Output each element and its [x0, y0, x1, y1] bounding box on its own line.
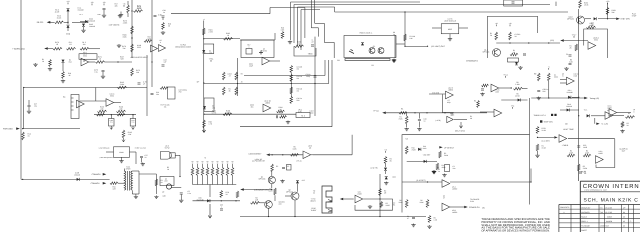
ground y121 x288 [286, 121, 290, 124]
limit module U17 box [441, 24, 459, 34]
junction y114 xb [132, 114, 133, 115]
wire U10C in [80, 100, 106, 102]
resistor R146 [477, 101, 480, 108]
svg-text:LOW ENERGY: LOW ENERGY [249, 153, 263, 156]
op-amp U9E [596, 156, 604, 164]
wire U8 right pin [130, 151, 137, 153]
resistor R190 [22, 132, 25, 140]
svg-text:03-02-95: 03-02-95 [605, 206, 612, 209]
supply +Frq left [503, 74, 508, 78]
capacitor C230 [220, 209, 223, 210]
svg-text:R2100.77K: R2100.77K [212, 110, 217, 115]
svg-text:R1821K: R1821K [226, 32, 230, 37]
resistor ladder R236 [221, 168, 224, 176]
wire x405 drop [404, 12, 406, 47]
wire x380 drop [379, 174, 381, 217]
wire xfmr sec top [132, 170, 139, 172]
junction y114 xa [111, 114, 112, 115]
resistor R122 [495, 32, 498, 40]
wire R171b to x132 [105, 61, 133, 63]
supply +Freq [572, 34, 577, 38]
svg-text:C101u: C101u [424, 118, 427, 123]
diode D130 [207, 199, 210, 202]
svg-text:R2: R2 [628, 112, 630, 115]
diode D90 [518, 98, 521, 101]
resistor R173b [67, 47, 76, 50]
diode D105 [82, 24, 85, 27]
svg-text:+D2: +D2 [302, 179, 305, 182]
resistor R164 [97, 113, 105, 116]
junction x22 y179 [22, 179, 23, 180]
svg-text:R14K: R14K [228, 88, 231, 93]
ground x163 [161, 31, 165, 34]
resistor R280 [626, 116, 635, 119]
svg-text:A1: A1 [63, 96, 66, 99]
wire U17 left pin [432, 27, 441, 29]
svg-text:MOD: MOD [448, 28, 453, 31]
wire vertical bus x152 [151, 0, 153, 87]
resistor R177 [131, 68, 134, 76]
arrow PWR GND [16, 127, 20, 130]
wire ladder bottom rail [193, 184, 237, 186]
wire x531 up [530, 169, 532, 183]
svg-text:TRIM: TRIM [308, 53, 313, 56]
svg-text:PROJ. #: PROJ. # [581, 220, 587, 223]
svg-text:R1740K: R1740K [114, 3, 118, 8]
svg-text:D1051N4448: D1051N4448 [89, 23, 95, 28]
resistor R284 [577, 164, 580, 171]
svg-text:U10 BLM833: U10 BLM833 [448, 87, 454, 92]
ground under U8 [119, 160, 123, 163]
svg-text:R12K: R12K [569, 45, 572, 50]
arrow STBY DRV [616, 17, 620, 20]
ground under C92 [537, 97, 541, 100]
svg-text:C2S100R: C2S100R [583, 144, 588, 149]
wire bus y13.7 [171, 13, 270, 15]
svg-text:R182K: R182K [168, 23, 171, 28]
svg-text:R2200K: R2200K [444, 152, 449, 157]
title table column line 4 [603, 205, 605, 233]
resistor R192 [155, 179, 158, 186]
diode D121 [385, 177, 388, 180]
svg-text:COMMON: COMMON [91, 182, 100, 185]
wire ladder drop R232 [202, 176, 204, 185]
wire vas loop [488, 16, 538, 58]
junction y43 b [528, 42, 529, 43]
svg-text:C9B: C9B [562, 73, 565, 78]
arrow THE GA [382, 112, 386, 115]
arrow -V zener [208, 204, 212, 218]
ground shield [392, 59, 396, 62]
svg-text:(-15 VOLTS): (-15 VOLTS) [109, 24, 120, 27]
svg-text:R11K: R11K [161, 179, 164, 184]
wire psu inputs [402, 181, 442, 183]
supply +50 A [91, 1, 94, 5]
wire U9C out [617, 112, 631, 114]
wire y100 link [501, 99, 527, 101]
resistor R188 [295, 45, 304, 48]
svg-text:SCALE: SCALE [581, 215, 587, 218]
resistor ladder R238 [231, 168, 234, 176]
resistor R176b [134, 10, 143, 13]
capacitor C154 [154, 15, 157, 16]
diode D95 [567, 108, 570, 111]
svg-text:03: 03 [623, 220, 625, 223]
ground protect [392, 59, 396, 62]
junction le b [282, 154, 283, 155]
resistor R130 [160, 87, 168, 90]
wire xfmr sec bottom [131, 191, 133, 195]
timing list squares [551, 114, 553, 116]
resistor R181 [49, 60, 52, 67]
temp sen square [540, 120, 542, 122]
resistor R183 [162, 23, 165, 30]
wire y40 relay top [240, 39, 275, 41]
resistor R224 [220, 191, 223, 198]
svg-text:U100 1BLM833: U100 1BLM833 [264, 100, 271, 105]
supply +15 c [548, 66, 550, 70]
wire Q120 emitter down [271, 184, 273, 188]
capacitor C176 [102, 70, 105, 71]
wire bus F drop2 [317, 28, 319, 37]
svg-text:C2R4: C2R4 [393, 202, 395, 207]
transistor Q111 [378, 48, 384, 54]
ground row b [48, 68, 52, 71]
wire x136 drop [135, 152, 137, 164]
wire C17 down [141, 158, 143, 163]
svg-text:R6100K: R6100K [420, 199, 425, 204]
capacitor C173 [28, 105, 31, 106]
ground under U22 [368, 205, 372, 208]
resistor ladder R235 [216, 168, 219, 176]
junction pwr gnd [22, 128, 23, 129]
svg-text:U1 BTLP12: U1 BTLP12 [165, 145, 170, 150]
wire drop to arrow [594, 118, 596, 124]
opto gate U12 body [161, 152, 172, 160]
svg-text:R11K: R11K [513, 49, 516, 54]
svg-text:C20.1u: C20.1u [188, 190, 191, 195]
svg-text:139K2.SCH: 139K2.SCH [600, 225, 610, 228]
supply +10 a [495, 22, 498, 26]
wire limit out [405, 45, 428, 47]
supply chain +V [384, 149, 387, 153]
arrow left off-page [560, 39, 564, 42]
wire gnd stub [120, 12, 122, 14]
wire u30a out long [450, 181, 531, 183]
wire vert from y88 [23, 88, 25, 129]
svg-text:R180150K: R180150K [122, 34, 127, 39]
svg-text:TP GA: TP GA [373, 110, 379, 113]
svg-text:U3.BLM339: U3.BLM339 [452, 209, 457, 214]
svg-text:+C 1.2M: +C 1.2M [601, 123, 608, 126]
svg-text:C81u: C81u [393, 31, 395, 36]
junction x132 y38b [131, 37, 132, 38]
svg-text:R1700K: R1700K [399, 116, 404, 121]
ground right of Q120 [280, 180, 284, 183]
wire bal corner a [324, 60, 326, 76]
junction x210 zener [209, 200, 210, 201]
svg-text:R14 1K1%: R14 1K1% [297, 75, 304, 80]
ground top psu a [432, 170, 436, 173]
resistor R91 [514, 87, 523, 90]
wire U8 left pin [106, 151, 114, 153]
svg-text:T100XFMR: T100XFMR [126, 166, 132, 171]
junction y98 [548, 97, 549, 98]
svg-text:R61.2K: R61.2K [434, 217, 438, 222]
svg-text:03-17-95: 03-17-95 [605, 211, 612, 214]
svg-text:U17 BLIMIT MODULE: U17 BLIMIT MODULE [444, 18, 457, 23]
svg-text:C10 1u50V: C10 1u50V [297, 97, 303, 102]
op-amp U10B-A feedback loop [584, 29, 608, 50]
svg-text:+REG: +REG [209, 58, 214, 61]
diode D125 [418, 148, 421, 151]
svg-text:R210R: R210R [255, 197, 259, 202]
resistor R211 [203, 120, 206, 128]
svg-text:R14K: R14K [470, 115, 473, 120]
svg-text:R9100K: R9100K [293, 146, 298, 151]
resistor R133 [222, 72, 225, 80]
svg-text:C13 1000u75V: C13 1000u75V [179, 89, 187, 94]
wire bus C y7 [298, 6, 335, 8]
diode D-bridge [77, 178, 80, 181]
wire u30b out [450, 206, 464, 208]
wire right load vert [155, 174, 157, 194]
svg-text:LIGHT TEMP: LIGHT TEMP [563, 128, 575, 131]
box around D112 [204, 98, 214, 112]
resistor R136 [235, 87, 238, 95]
wire +BAL a [244, 75, 325, 77]
wire bus F x311 [310, 0, 312, 28]
svg-text:U9 CLM83: U9 CLM83 [607, 105, 612, 110]
resistor R134 [235, 72, 238, 80]
wire U8 gnd stub [121, 157, 123, 159]
svg-text:C7100p: C7100p [447, 99, 451, 104]
svg-text:R1?? 6.04K1%: R1?? 6.04K1% [161, 104, 171, 109]
wire bus F jog [311, 27, 318, 29]
wire main left vertical bus [20, 0, 22, 179]
wire common b to xfmr [118, 182, 124, 184]
wire R222 to Q122 [274, 195, 276, 201]
capacitor C280 [577, 146, 580, 147]
protection circuit box [344, 36, 396, 58]
wire C176 down [102, 72, 104, 75]
ground row a [33, 63, 37, 66]
ground under D93 [518, 66, 522, 69]
ground under R281 [620, 130, 624, 133]
junction zener a [221, 200, 222, 201]
wire protect out [396, 43, 405, 45]
title block divider 1 [580, 191, 640, 193]
title table row line 4 [559, 222, 640, 224]
svg-text:U3.ALM339: U3.ALM339 [452, 186, 457, 191]
arrow jack signal [340, 198, 343, 200]
resistor R179b [536, 144, 539, 151]
svg-text:U1 B5532: U1 B5532 [83, 53, 88, 58]
op-amp U1C partial [77, 100, 85, 108]
capacitor C167 can [130, 119, 136, 127]
svg-text:R431.02K: R431.02K [147, 36, 152, 41]
title table column line 2 [579, 205, 581, 233]
transistor Q122 [265, 201, 273, 209]
ground x119 y45 [117, 44, 121, 47]
junction x607 y12 [607, 11, 608, 12]
svg-text:C1670.1u: C1670.1u [131, 120, 135, 123]
svg-text:C1710: C1710 [145, 154, 148, 159]
svg-text:R24R: R24R [384, 190, 387, 195]
svg-text:R1B: R1B [98, 13, 101, 16]
wire opamp out right [311, 154, 313, 156]
arrow under C167 [132, 126, 135, 130]
svg-text:R115.0K: R115.0K [542, 145, 547, 150]
svg-text:C131uF: C131uF [163, 59, 166, 64]
resistor R179 [131, 44, 134, 52]
arrow UP DETECT [439, 146, 442, 148]
arrow WARN input [44, 47, 48, 50]
svg-text:R12K: R12K [490, 32, 493, 37]
resistor ladder R237 [226, 168, 229, 176]
wire y83 to ladder [204, 83, 329, 85]
diode D107 [61, 60, 64, 63]
wire section divider x529.5 [529, 98, 531, 205]
wire cap b stub [132, 115, 134, 119]
junction x268 y216 [268, 216, 269, 217]
wire d96 to u9d [591, 115, 605, 117]
svg-text:R1812.37K: R1812.37K [209, 29, 214, 34]
svg-text:Q102MPSA56: Q102MPSA56 [567, 16, 574, 21]
transformer T100 secondary [131, 171, 133, 190]
junction y112 b [426, 112, 427, 113]
wire to column x88 [72, 21, 88, 23]
wire x578.7 main vertical [578, 9, 580, 181]
resistor R123 [509, 32, 512, 40]
wire ladder top stub R231 [197, 164, 199, 168]
svg-text:(75.1): (75.1) [297, 160, 302, 163]
svg-text:LOCK OFAC POWER DET: LOCK OFAC POWER DET [252, 158, 265, 163]
svg-text:03: 03 [623, 225, 625, 228]
diode D126 [424, 160, 427, 163]
title table column line 5 [621, 205, 623, 233]
wire temp gnd stub [537, 151, 539, 154]
wire ladder to zener [209, 185, 211, 198]
op-amp U30A [442, 180, 450, 188]
title table row line 3 [559, 217, 640, 219]
title table row line 5 [559, 227, 640, 229]
svg-text:FB 223: FB 223 [37, 21, 44, 24]
wire box down left [83, 59, 85, 62]
wire ladder top stub R230 [192, 164, 194, 168]
svg-text:C1: C1 [566, 53, 568, 56]
wire temp right [538, 136, 555, 138]
wire off-page to opamp [564, 40, 588, 42]
svg-text:C12200: C12200 [554, 74, 558, 79]
junction psu in [427, 181, 428, 182]
svg-text:(2 SE TR): (2 SE TR) [370, 167, 378, 170]
connector J1 pin 2 [328, 210, 332, 213]
wire D101-D102 link [67, 11, 69, 24]
bias module box [504, 0, 523, 6]
svg-text:R1010R: R1010R [112, 186, 116, 191]
wire r147 bot [406, 124, 408, 127]
ground under U17 [448, 38, 452, 41]
resistor R156 [579, 0, 582, 8]
svg-text:R15 1K1%: R15 1K1% [297, 88, 304, 93]
resistor R185 [224, 37, 233, 40]
svg-text:C202301: C202301 [250, 104, 254, 109]
svg-text:C1.1: C1.1 [79, 13, 82, 16]
svg-text:D1061N4448: D1061N4448 [89, 18, 95, 23]
svg-text:R17210K: R17210K [136, 69, 140, 74]
wire gate drop [179, 155, 181, 176]
capacitor C180 [162, 16, 165, 17]
capacitor C175 [138, 83, 141, 84]
resistor R124 [510, 53, 518, 56]
wire cap a stub [110, 115, 112, 119]
wire U22 feedback [355, 199, 393, 210]
resistor R158 [606, 8, 609, 15]
wire left bus to transformer [21, 178, 110, 180]
svg-text:Q1: Q1 [373, 45, 375, 48]
svg-text:Q1MPSA56: Q1MPSA56 [259, 176, 266, 181]
svg-text:(LOW FREQUENCY): (LOW FREQUENCY) [100, 156, 114, 159]
capacitor C17 [140, 156, 143, 157]
wire trim loop [294, 46, 316, 56]
junction x132 y38 [131, 37, 132, 38]
svg-text:C153.47: C153.47 [227, 73, 231, 78]
supply +50 B [103, 1, 106, 5]
resistor R147 700K [405, 116, 408, 124]
diode D127 [384, 168, 387, 171]
capacitor C99 [569, 63, 572, 64]
capacitor C231 [180, 193, 183, 194]
wire C173 top [28, 100, 30, 105]
wire q121 down [294, 200, 296, 217]
resistor R212 [280, 116, 287, 119]
ground under R175 [119, 14, 123, 17]
svg-text:D9 41N4448: D9 41N4448 [567, 89, 573, 94]
capacitor C147 [418, 119, 421, 120]
svg-text:PROJECTS: PROJECTS [560, 206, 570, 209]
ground under R147 [405, 128, 409, 131]
wire ladder top stub R233 [207, 164, 209, 168]
lamp symbol in box [166, 184, 171, 189]
connector J1 body [322, 186, 332, 213]
wire ladder drop R233 [207, 176, 209, 185]
wire ladder drop R234 [212, 176, 214, 185]
wire c147 bot [418, 122, 420, 128]
junction y112 a [414, 112, 415, 113]
wire U10C out [114, 102, 121, 104]
arrow COMMON A [103, 173, 107, 176]
wire bus D drop [300, 10, 302, 51]
ground under C231 [179, 199, 183, 202]
svg-text:C62?: C62? [443, 195, 445, 200]
svg-text:R1: R1 [401, 108, 403, 111]
svg-text:TO PA3GROUNDING NODE: TO PA3GROUNDING NODE [175, 44, 192, 49]
resistor R142 [290, 87, 293, 94]
svg-text:R186.8K: R186.8K [281, 27, 285, 32]
svg-text:D-BR1N4448: D-BR1N4448 [74, 172, 80, 177]
ground psu c [411, 224, 415, 227]
wire xfmr gnd link [132, 193, 139, 195]
svg-text:D10IN40: D10IN40 [423, 145, 427, 150]
diode D112 [203, 106, 206, 109]
junction x427 y46.25 [427, 46, 428, 47]
junction x203 y83 [203, 82, 204, 83]
wire vertical bus x132 [131, 0, 133, 58]
svg-text:C20110pF: C20110pF [249, 63, 253, 68]
svg-text:R1791R: R1791R [55, 41, 59, 46]
junction y114 x204 [203, 114, 204, 115]
